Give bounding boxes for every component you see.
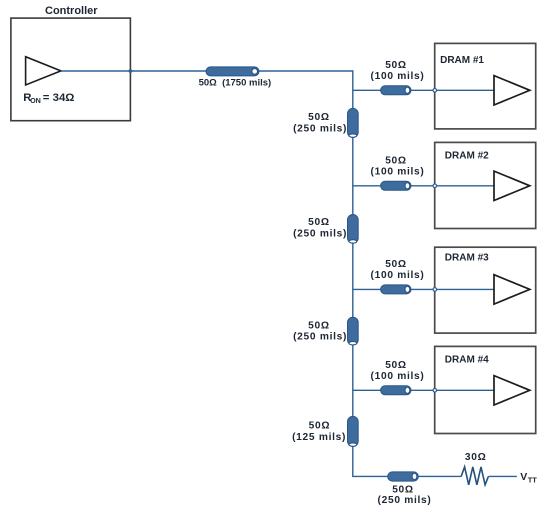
svg-text:DRAM #3: DRAM #3 [445,253,489,264]
DRAM #4 box [435,346,536,433]
svg-text:(100 mils): (100 mils) [371,270,425,281]
svg-text:(250 mils): (250 mils) [293,332,347,343]
wire resistor to VTT [488,475,516,477]
svg-text:DRAM #1: DRAM #1 [440,55,484,66]
svg-text:50Ω: 50Ω [309,421,331,432]
DRAM #1 box [435,43,536,128]
label 50Ω 250 mils segment 1 [293,112,347,134]
label 50Ω 125 mils [292,421,346,443]
svg-text:(100 mils): (100 mils) [371,371,425,382]
label RON = 34Ω [23,92,74,105]
label 50Ω 250 mils segment 2 [293,217,347,239]
resistor RTT 30Ω [461,467,488,485]
controller box [11,18,130,121]
transmission line T9 50Ω 125 mils (bus segment 4) [348,416,359,446]
wire branch to DRAM #4 [353,389,494,391]
wire branch to DRAM #1 [353,89,494,91]
wire branch to DRAM #2 [353,185,494,187]
svg-text:50Ω: 50Ω [308,320,330,331]
transmission line T5 50Ω 250 mils (bus segment 2) [348,215,359,244]
svg-text:= 34Ω: = 34Ω [43,92,75,104]
wire branch to DRAM #3 [353,288,494,290]
transmission line T3 50Ω 250 mils (bus segment 1) [348,108,359,137]
transmission line T10 50Ω 250 mils (termination) [388,472,419,481]
svg-text:(250 mils): (250 mils) [378,495,432,506]
svg-text:(250 mils): (250 mils) [293,123,347,134]
svg-text:V: V [520,471,527,483]
svg-text:50Ω: 50Ω [308,112,330,123]
svg-text:50Ω: 50Ω [385,156,407,167]
DRAM #3 box [435,247,536,333]
wire bottom termination run [352,475,461,477]
node pin DRAM #4 [433,389,437,393]
svg-text:(250 mils): (250 mils) [293,228,347,239]
node pin DRAM #1 [433,89,437,93]
label 50Ω 250 mils segment 3 [293,320,347,342]
transmission line T7 50Ω 250 mils (bus segment 3) [348,317,359,345]
label 50Ω 100 mils branch 2 [371,156,425,178]
label 50Ω 100 mils branch 4 [371,360,425,382]
svg-text:DRAM #2: DRAM #2 [445,150,489,161]
node pin DRAM #3 [433,288,437,292]
label 50Ω 100 mils branch 1 [371,60,425,82]
buffer in DRAM #1 [494,76,530,105]
svg-text:Controller: Controller [45,5,98,17]
buffer in DRAM #2 [494,171,530,200]
svg-text:TT: TT [528,476,538,485]
svg-text:50Ω (1750 mils): 50Ω (1750 mils) [199,78,272,89]
svg-text:50Ω: 50Ω [385,259,407,270]
buffer in DRAM #3 [494,275,530,304]
svg-text:(100 mils): (100 mils) [371,167,425,178]
svg-text:30Ω: 30Ω [465,452,487,463]
wire main horizontal from controller to bus [61,70,353,72]
svg-text:(125 mils): (125 mils) [292,432,346,443]
label 50Ω 250 mils termination [378,484,432,506]
transmission line T8 50Ω 100 mils [381,386,411,395]
node pin DRAM #2 [433,184,437,188]
svg-text:DRAM #4: DRAM #4 [445,355,489,366]
svg-text:(100 mils): (100 mils) [371,71,425,82]
svg-text:50Ω: 50Ω [308,217,330,228]
transmission line T6 50Ω 100 mils [381,285,411,294]
label 50Ω 100 mils branch 3 [371,259,425,281]
buffer in DRAM #4 [494,376,530,405]
transmission line T1 50Ω 1750 mils [206,67,259,76]
DRAM #2 box [435,142,536,228]
svg-text:ON: ON [30,96,41,105]
wire bus vertical [352,70,354,476]
transmission line T4 50Ω 100 mils [381,181,411,190]
label VTT [520,471,537,485]
junction at controller output [129,69,133,73]
svg-text:50Ω: 50Ω [385,60,407,71]
transmission line T2 50Ω 100 mils [381,86,411,95]
buffer U1 controller driver [26,57,61,85]
svg-text:50Ω: 50Ω [385,360,407,371]
svg-text:50Ω: 50Ω [392,484,414,495]
